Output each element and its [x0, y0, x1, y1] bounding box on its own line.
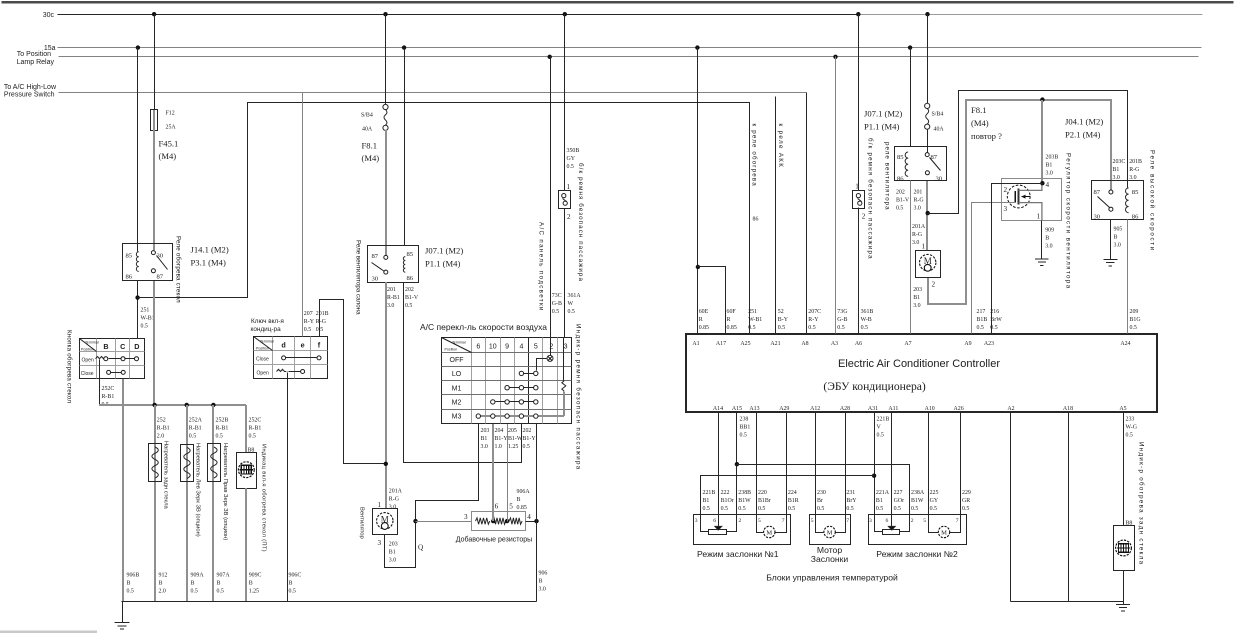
- relay high switch contact: [1098, 190, 1113, 211]
- wire matrix col2 internal: [550, 338, 552, 356]
- svg-text:2: 2: [549, 344, 553, 351]
- svg-text:A9: A9: [964, 341, 971, 347]
- servo box 2 Мотор Заслонки: [810, 515, 851, 545]
- svg-text:B8: B8: [1126, 520, 1133, 526]
- wire 227 A11 to servo3 pin 6: [891, 412, 893, 515]
- wire 225 A10 to servo3 pin 5: [928, 412, 930, 515]
- svg-text:6: 6: [495, 502, 499, 510]
- svg-text:Close: Close: [81, 371, 94, 377]
- wire ground bus bottom right: [1011, 601, 1124, 603]
- indicator B8 heated glass: [237, 453, 257, 489]
- svg-text:A13: A13: [749, 406, 759, 412]
- relay J07.1 right box: [895, 147, 947, 181]
- svg-text:Реле высокой скорости: Реле высокой скорости: [1149, 150, 1156, 252]
- wire 224 A29 to servo1 pin 7: [786, 412, 788, 515]
- svg-text:Вентилятор: Вентилятор: [359, 507, 365, 539]
- switch contacts Open row: [96, 357, 139, 361]
- wire matrix col3 internal to top: [563, 338, 565, 381]
- wire from switch C to ground bus: [122, 379, 124, 602]
- svg-text:Electric Air Conditioner Contr: Electric Air Conditioner Controller: [838, 358, 1000, 370]
- wire 221 A31 to servo3 pin 3: [874, 412, 876, 515]
- servo3 motor: [929, 515, 961, 538]
- svg-text:Режим заслонки №1: Режим заслонки №1: [697, 549, 779, 559]
- svg-text:5: 5: [509, 502, 513, 510]
- svg-text:30: 30: [936, 175, 943, 182]
- svg-text:Индик-р обогрева задн стекла: Индик-р обогрева задн стекла: [1138, 442, 1145, 565]
- svg-text:A21: A21: [770, 341, 780, 347]
- key table grid: [254, 337, 328, 379]
- junction 238 branch: [735, 462, 739, 466]
- svg-text:85: 85: [897, 154, 904, 161]
- ECU top pin labels: [692, 341, 1130, 347]
- svg-text:S/B4: S/B4: [932, 112, 944, 118]
- svg-text:3: 3: [464, 513, 468, 521]
- fuse S/B4 40A right: [925, 103, 930, 129]
- svg-text:To A/C High-Low: To A/C High-Low: [4, 84, 57, 91]
- svg-text:Open: Open: [82, 357, 94, 363]
- wire 201 relay right 30 down: [926, 181, 928, 250]
- svg-text:6: 6: [886, 518, 889, 524]
- page frame top bar: [2, 1, 1234, 3]
- ECU Electric Air Conditioner Controller box: [686, 334, 1157, 412]
- svg-text:B: B: [103, 342, 108, 351]
- M3 row contacts and link to col3: [476, 392, 564, 418]
- wire 201B key switch f to blower feed: [320, 300, 386, 464]
- indicator B8 rear window right: [1114, 526, 1135, 571]
- connector б/к ремня безопасн пассажира left: [559, 191, 571, 209]
- transistor U1 mosfet symbol: [1007, 184, 1042, 220]
- wire relay J14.1 pin 86 down to junction: [137, 281, 139, 339]
- wire 73C panel light from Position bus to matrix col2: [550, 57, 552, 338]
- svg-text:1: 1: [855, 183, 859, 191]
- svg-text:б/к ремня безопасн пассажира: б/к ремня безопасн пассажира: [577, 163, 584, 282]
- relay right coil: [905, 152, 908, 176]
- svg-text:A10: A10: [925, 406, 935, 412]
- wire 231 A28 to servo2 pin 7: [845, 412, 847, 515]
- svg-text:30c: 30c: [43, 12, 55, 19]
- wire heater element 1 drop: [154, 405, 156, 602]
- svg-text:2: 2: [739, 518, 742, 524]
- junction right blower feed: [926, 211, 930, 215]
- svg-text:реле вентилятора: реле вентилятора: [884, 142, 891, 211]
- svg-text:B8: B8: [248, 447, 255, 453]
- relay J14.1 switch contact: [151, 251, 167, 273]
- wire A14 to servo1 pin 6: [718, 412, 720, 515]
- wire A18 to ground bus right: [1068, 412, 1070, 602]
- wire 203 blower motor to speed switch col6: [385, 424, 479, 568]
- wire 350B from 30c to connector: [564, 15, 566, 191]
- added resistors box Добавочные резисторы: [472, 512, 526, 531]
- wire 30c to belt connector right: [858, 15, 860, 191]
- fuse F12 25A: [151, 110, 158, 131]
- svg-text:P1.1 (M4): P1.1 (M4): [864, 122, 899, 132]
- ground symbol bottom right: [1123, 602, 1125, 605]
- wire 230 A12 to servo2 pin 5: [815, 412, 817, 515]
- svg-text:Terminal: Terminal: [452, 341, 466, 345]
- svg-text:Индик-р ремня безопасн пассажи: Индик-р ремня безопасн пассажира: [575, 324, 582, 471]
- M2 row contacts: [491, 400, 538, 404]
- svg-text:S/B4: S/B4: [361, 113, 373, 119]
- svg-text:3: 3: [869, 518, 872, 524]
- svg-text:86: 86: [1132, 213, 1139, 220]
- svg-text:Заслонки: Заслонки: [811, 554, 849, 564]
- svg-text:2: 2: [911, 518, 914, 524]
- svg-text:7: 7: [782, 518, 785, 524]
- svg-text:40A: 40A: [362, 127, 373, 133]
- svg-text:(M4): (M4): [159, 151, 177, 161]
- svg-text:5: 5: [758, 518, 761, 524]
- key switch contacts Close row: [282, 356, 321, 360]
- resistor in matrix col3: [562, 380, 566, 391]
- wire bus 30c: [58, 14, 1203, 16]
- svg-text:Нагреватель задн стекла: Нагреватель задн стекла: [162, 441, 168, 509]
- svg-text:30: 30: [157, 253, 164, 260]
- relay J14.1 coil: [136, 252, 138, 272]
- wire 204 tap6 to matrix col10: [492, 423, 494, 521]
- svg-text:Q: Q: [418, 544, 424, 552]
- svg-text:A8: A8: [801, 341, 808, 347]
- svg-text:30: 30: [1094, 213, 1101, 220]
- servo1 potentiometer: [701, 515, 737, 535]
- svg-text:2: 2: [567, 213, 571, 221]
- svg-text:1: 1: [567, 183, 571, 191]
- svg-text:P3.1 (M4): P3.1 (M4): [191, 258, 226, 268]
- svg-text:Блоки управления температурой: Блоки управления температурой: [766, 573, 898, 583]
- wire indicator B8 to ground bus: [245, 488, 247, 602]
- svg-text:A/C перекл-ль скорости воздуха: A/C перекл-ль скорости воздуха: [420, 322, 547, 332]
- svg-text:Pressure Switch: Pressure Switch: [4, 92, 55, 99]
- wire 238A branch to servo3 pin 2: [737, 465, 910, 515]
- svg-text:Реле вентилятора салона: Реле вентилятора салона: [355, 240, 362, 315]
- svg-text:85: 85: [407, 251, 414, 258]
- svg-text:Position: Position: [256, 347, 269, 351]
- svg-text:(ЭБУ кондиционера): (ЭБУ кондиционера): [823, 380, 926, 393]
- ECU bottom pin labels: [713, 406, 1127, 412]
- svg-text:C: C: [120, 342, 125, 351]
- svg-text:87: 87: [1094, 189, 1101, 196]
- svg-text:A12: A12: [810, 406, 820, 412]
- table header diagonal: [80, 339, 97, 352]
- svg-text:D: D: [134, 342, 139, 351]
- wire 221B branch to servo1 pin 3: [701, 476, 875, 515]
- svg-text:3: 3: [564, 344, 568, 351]
- svg-text:1: 1: [378, 501, 382, 509]
- wire added resistors pin4 to node 906: [526, 521, 537, 523]
- svg-text:Индикац вкл-я обогрева стекол: Индикац вкл-я обогрева стекол (ПТ): [261, 444, 267, 552]
- svg-text:Нагреватель Лев Зерк ЗВ (опцио: Нагреватель Лев Зерк ЗВ (опцион): [195, 443, 201, 537]
- svg-text:3: 3: [695, 518, 698, 524]
- motor Вентилятор box: [373, 509, 398, 535]
- wire 906 node to ground bus: [536, 522, 538, 602]
- svg-text:86: 86: [126, 274, 133, 281]
- heater element right mirror box: [208, 444, 221, 482]
- wire bus To Position Lamp Relay: [59, 56, 1199, 58]
- svg-text:б/к ремня безопасн пассажира: б/к ремня безопасн пассажира: [867, 138, 874, 260]
- svg-text:A14: A14: [713, 406, 723, 412]
- relay J14.1 (M2) P3.1 (M4) heater relay box: [123, 244, 173, 281]
- svg-text:87: 87: [372, 253, 379, 260]
- svg-text:Кнопка обогрева стекол: Кнопка обогрева стекол: [66, 330, 73, 403]
- wire ground bus bottom left: [122, 601, 537, 603]
- wire 30c to fuse S/B4 left: [385, 15, 387, 105]
- wire A2 to ground bus right: [1010, 412, 1012, 602]
- matrix grid rows: [442, 353, 572, 410]
- svg-text:Нагреватель Прав Зерк ЗВ (опци: Нагреватель Прав Зерк ЗВ (опцион): [222, 443, 228, 540]
- bottom-left gray strip: [0, 631, 97, 633]
- wire 60F branch to ECU A17: [698, 267, 726, 334]
- wire 201A branch to high speed relay coil: [928, 91, 1128, 214]
- switch Ключ table box: [254, 337, 328, 379]
- svg-text:A11: A11: [888, 406, 898, 412]
- servo2 motor: [816, 515, 846, 538]
- svg-text:А/С панель подсветки: А/С панель подсветки: [538, 222, 545, 312]
- wire 207 from High-Low bus to key switch e: [302, 93, 304, 337]
- svg-text:к реле АКК: к реле АКК: [777, 124, 784, 169]
- svg-text:Close: Close: [256, 357, 269, 363]
- wire 202 relay right coil to ECU A7: [910, 181, 912, 334]
- svg-text:F45.1: F45.1: [159, 139, 179, 149]
- svg-text:Position: Position: [81, 348, 94, 352]
- svg-text:F8.1: F8.1: [971, 105, 987, 115]
- svg-text:A18: A18: [1063, 406, 1073, 412]
- wire 30c to fuse S/B4 right: [927, 15, 929, 104]
- svg-text:85: 85: [126, 253, 133, 260]
- svg-text:A2: A2: [1007, 406, 1014, 412]
- wire indicator B8 drop: [245, 405, 247, 453]
- svg-text:Position: Position: [445, 348, 458, 352]
- svg-text:A1: A1: [692, 341, 699, 347]
- wire 216 transistor pin 4 to ECU A23: [992, 184, 1043, 334]
- svg-text:Terminal: Terminal: [85, 341, 99, 345]
- svg-text:10: 10: [489, 344, 497, 351]
- junction resistor feed: [413, 519, 417, 523]
- wire 202 relay 86 to switch matrix col4: [404, 283, 522, 463]
- wire 905 relay high 30 to ground: [1110, 220, 1112, 260]
- svg-text:P1.1 (M4): P1.1 (M4): [425, 259, 460, 269]
- matrix grid columns: [472, 338, 558, 424]
- relay right switch contact: [925, 153, 940, 175]
- svg-text:6: 6: [713, 518, 716, 524]
- servo1 motor: [757, 515, 787, 538]
- svg-text:J14.1 (M2): J14.1 (M2): [191, 245, 229, 255]
- resistor element 2: [493, 518, 507, 524]
- svg-text:87: 87: [157, 274, 164, 281]
- svg-text:Регулятор скорости вентилятора: Регулятор скорости вентилятора: [1065, 153, 1072, 290]
- svg-text:7: 7: [846, 518, 849, 524]
- svg-text:40A: 40A: [934, 127, 945, 133]
- junction transistor pin 4: [1040, 181, 1044, 185]
- ground symbol relay high: [1103, 259, 1117, 266]
- wire 238 A15 to servo1 pin 2: [736, 412, 738, 515]
- svg-text:A3: A3: [831, 341, 838, 347]
- junction dots heater bus: [152, 403, 215, 407]
- svg-text:кондиц-ра: кондиц-ра: [251, 326, 282, 333]
- svg-text:86: 86: [407, 275, 414, 282]
- wire 73G Position bus to ECU A3: [835, 57, 837, 334]
- servo3 potentiometer: [875, 515, 910, 535]
- svg-text:1: 1: [1037, 213, 1041, 221]
- svg-text:2: 2: [862, 213, 866, 221]
- wire 30c to fuse F12: [154, 15, 156, 110]
- junction blower feed: [384, 462, 388, 466]
- svg-text:30: 30: [372, 275, 379, 282]
- wire 251 from J14.1 pin86 to ECU A25 via top route: [138, 103, 750, 334]
- svg-text:3: 3: [378, 539, 382, 547]
- svg-text:A24: A24: [1120, 341, 1130, 347]
- svg-text:Ключ вкл-я: Ключ вкл-я: [251, 318, 284, 325]
- matrix header diagonal: [442, 338, 472, 353]
- junction tap 6: [491, 519, 495, 523]
- M1 row contacts: [505, 386, 538, 390]
- relay J07.1 coil: [403, 257, 405, 273]
- junction dots on 15a bus: [136, 45, 913, 49]
- svg-text:5: 5: [923, 518, 926, 524]
- wire 15a to relay J07.1 coil 85: [404, 48, 406, 246]
- wire indicator B8 right to ground bus: [1123, 571, 1125, 602]
- svg-text:Lamp Relay: Lamp Relay: [17, 59, 55, 66]
- junction node below J14.1: [135, 295, 139, 299]
- svg-text:4: 4: [1046, 181, 1050, 189]
- svg-text:5: 5: [534, 344, 538, 351]
- wire heater element 3 drop: [212, 405, 214, 602]
- svg-text:J07.1 (M2): J07.1 (M2): [425, 246, 463, 256]
- svg-text:M2: M2: [452, 400, 462, 407]
- wire 361B connector to ECU A6: [858, 208, 860, 334]
- svg-text:M: M: [941, 529, 947, 536]
- svg-text:A28: A28: [840, 406, 850, 412]
- wire 217 transistor pin 3 to ECU A9: [972, 203, 1016, 334]
- connector б/к ремня безопасн пассажира right: [853, 191, 865, 209]
- svg-text:P2.1 (M4): P2.1 (M4): [1065, 130, 1100, 140]
- wire 203B to transistor pin 4: [1041, 100, 1043, 183]
- svg-text:M: M: [766, 529, 772, 536]
- transistor fan speed regulator box: [1002, 179, 1062, 221]
- svg-text:e: e: [301, 341, 305, 350]
- svg-text:A6: A6: [855, 341, 862, 347]
- svg-text:To Position: To Position: [17, 51, 51, 58]
- svg-text:4: 4: [527, 513, 531, 521]
- motor blower right box: [916, 251, 941, 278]
- svg-text:J04.1 (M2): J04.1 (M2): [1065, 117, 1103, 127]
- svg-text:(M4): (M4): [971, 118, 989, 128]
- wire 201 relay 30 to blower motor: [385, 282, 387, 509]
- svg-text:Режим заслонки №2: Режим заслонки №2: [876, 549, 958, 559]
- wire bus 15a: [58, 47, 1202, 49]
- key switch contacts Open row: [277, 369, 305, 373]
- svg-text:Добавочные резисторы: Добавочные резисторы: [456, 536, 532, 544]
- junction dots on 30c bus: [152, 12, 930, 16]
- wire bus A/C High-Low Pressure Switch: [59, 92, 807, 94]
- resistor element 1: [476, 518, 490, 524]
- svg-text:A7: A7: [904, 341, 911, 347]
- wire motor node to added resistors pin 3: [416, 521, 472, 523]
- switch Кнопка обогрева table box: [80, 339, 145, 379]
- wire heater feed bus 252: [99, 404, 246, 406]
- relay high coil: [1126, 188, 1129, 213]
- wire fuse S/B4 to relay J07.1 pin 87: [385, 130, 387, 255]
- svg-text:OFF: OFF: [450, 357, 464, 364]
- switch matrix table box: [442, 338, 572, 424]
- LO row contacts: [519, 371, 538, 375]
- svg-text:4: 4: [519, 344, 523, 351]
- wire 220 A13 to servo1 pin 5: [756, 412, 758, 515]
- svg-text:86: 86: [897, 175, 904, 182]
- junction dots on Position Lamp bus: [548, 55, 838, 59]
- relay J07.1 (M2) P1.1 (M4) blower relay box left: [368, 246, 419, 283]
- heater element rear window box: [149, 444, 162, 482]
- resistor element 3: [509, 518, 522, 524]
- wire heater element 2 drop: [186, 405, 188, 602]
- ground symbol transistor: [1035, 259, 1049, 266]
- table grid lines: [80, 339, 145, 379]
- junction node 906: [534, 519, 538, 523]
- svg-text:Terminal: Terminal: [260, 340, 274, 344]
- svg-text:86: 86: [753, 217, 759, 223]
- svg-text:M1: M1: [452, 385, 462, 392]
- switch contacts Close row: [107, 370, 126, 374]
- wire 906A matrix col5 to node: [536, 424, 538, 522]
- wire 909 transistor pin 1 to ground: [1041, 221, 1043, 259]
- svg-text:A15: A15: [732, 406, 742, 412]
- svg-text:M: M: [827, 529, 833, 536]
- wire 52 to ECU A21 к реле АКК: [775, 97, 777, 334]
- svg-text:1: 1: [922, 243, 926, 251]
- wire 252C from switch B down to heater bus: [99, 360, 101, 405]
- OFF row lamp and link to LO: [537, 355, 554, 370]
- wire J14.1 pin 87 down to heater bus: [153, 281, 155, 405]
- wire 361A connector to matrix col3: [564, 209, 566, 338]
- svg-text:LO: LO: [452, 371, 462, 378]
- junction A1/A17 branch: [696, 265, 700, 269]
- servo box 3 Режим заслонки 2: [869, 515, 967, 545]
- svg-text:A26: A26: [954, 406, 964, 412]
- relay J04.1 high speed box: [1092, 181, 1144, 220]
- wire fuse to relay right pin 87: [927, 130, 929, 153]
- svg-text:A17: A17: [716, 341, 726, 347]
- svg-text:F8.1: F8.1: [362, 141, 378, 151]
- svg-text:к реле обогрева: к реле обогрева: [751, 124, 758, 187]
- heater element left mirror box: [181, 445, 194, 482]
- wire 60E 15a to ECU A1: [697, 48, 699, 334]
- wire fuse F12 to relay J14.1 pin 30: [153, 130, 155, 250]
- svg-text:A31: A31: [868, 406, 878, 412]
- junction 203B tap: [1040, 97, 1044, 101]
- svg-text:2: 2: [932, 281, 936, 289]
- svg-text:25A: 25A: [166, 125, 177, 131]
- wire 229 A26 to servo3 pin 7: [960, 412, 962, 515]
- svg-text:A29: A29: [779, 406, 789, 412]
- wire 203 blower right to regulator loop: [928, 100, 1111, 304]
- relay J07.1 switch contact: [372, 255, 388, 274]
- svg-text:A23: A23: [984, 341, 994, 347]
- ground symbol bottom left: [122, 602, 124, 623]
- fuse S/B4 40A left: [383, 104, 388, 130]
- key table header diagonal: [254, 337, 273, 351]
- svg-text:A5: A5: [1119, 406, 1126, 412]
- svg-text:5: 5: [811, 518, 814, 524]
- svg-text:(M4): (M4): [362, 153, 380, 163]
- wire 209 relay high coil 86 to ECU A24: [1127, 220, 1129, 334]
- svg-text:7: 7: [956, 518, 959, 524]
- junction tap 5: [505, 519, 509, 523]
- wire 233 A5 to indicator B8 right: [1123, 412, 1125, 526]
- svg-text:6: 6: [476, 344, 480, 351]
- wire 205 tap5 to matrix col9: [507, 424, 509, 522]
- wire 15a to relay right coil 85: [910, 48, 912, 147]
- svg-text:Open: Open: [257, 371, 269, 377]
- wire 15a to relay J14.1 pin 85: [137, 48, 139, 252]
- svg-text:3: 3: [1004, 205, 1008, 213]
